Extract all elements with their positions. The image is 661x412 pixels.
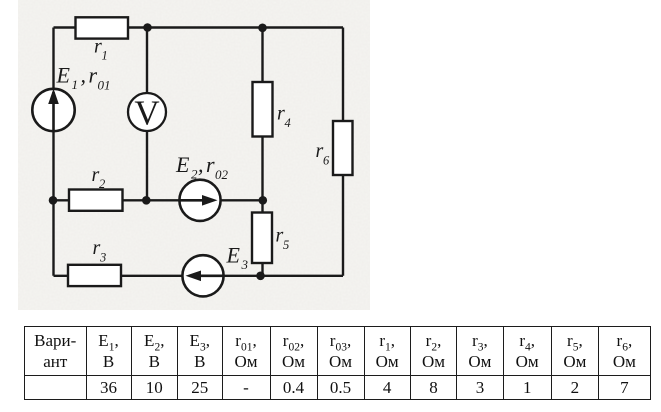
wire right branch [342, 28, 344, 276]
svg-text:3: 3 [99, 251, 106, 265]
wire middle [54, 199, 264, 201]
label r6 [316, 140, 331, 168]
svg-text:5: 5 [283, 238, 289, 252]
svg-text:r: r [89, 63, 98, 88]
label r3 [93, 237, 107, 265]
label E1,r01 [56, 63, 111, 93]
svg-text:6: 6 [323, 154, 330, 168]
wire voltmeter branch [146, 28, 148, 201]
label r5 [276, 225, 290, 253]
source E3 [182, 255, 223, 296]
label E3 [226, 243, 249, 273]
resistor R1 [76, 17, 129, 38]
svg-text:01: 01 [98, 78, 111, 93]
svg-text:E: E [175, 152, 190, 177]
svg-text:1: 1 [102, 49, 108, 63]
label r1 [94, 36, 108, 63]
node top-V junction [143, 23, 152, 32]
svg-text:2: 2 [191, 167, 198, 182]
source E1 [32, 89, 74, 132]
node top-R4 junction [258, 24, 267, 33]
svg-text:E: E [56, 63, 71, 88]
node R5-bottom junction [256, 272, 265, 281]
resistor R3 [68, 265, 121, 286]
svg-text:1: 1 [72, 77, 79, 92]
svg-text:4: 4 [285, 116, 291, 130]
svg-text:,: , [198, 152, 204, 177]
label r4 [277, 103, 291, 131]
wire left branch [52, 28, 54, 276]
node left-middle junction [49, 196, 58, 205]
resistor R2 [69, 190, 123, 211]
svg-text:E: E [226, 243, 241, 268]
data table [24, 326, 651, 400]
wire bottom [54, 275, 344, 277]
label r2 [92, 164, 106, 191]
wire r4-r5 branch [261, 28, 263, 276]
label E2,r02 [175, 152, 229, 182]
wire top (node 1) [54, 26, 344, 28]
source E2 [179, 180, 220, 221]
resistor R4 [253, 82, 273, 137]
svg-text:2: 2 [99, 177, 105, 191]
node V-middle junction [142, 196, 151, 205]
svg-text:3: 3 [241, 257, 249, 272]
svg-text:r: r [206, 152, 215, 177]
resistor R6 [333, 121, 353, 175]
svg-text:V: V [134, 94, 159, 133]
resistor R5 [252, 213, 272, 264]
voltmeter V [128, 93, 166, 133]
node R4-R5 junction [259, 196, 268, 205]
svg-text:,: , [81, 63, 87, 88]
svg-text:02: 02 [215, 167, 229, 182]
